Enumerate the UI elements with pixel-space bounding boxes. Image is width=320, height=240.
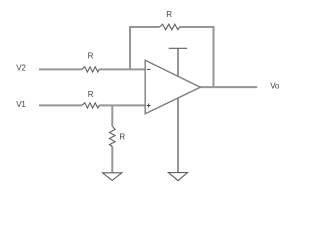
svg-text:V2: V2 [16,64,26,73]
svg-text:R: R [119,133,125,142]
svg-text:R: R [166,10,172,19]
svg-text:R: R [88,90,94,99]
svg-text:Vo: Vo [270,82,280,91]
svg-text:V1: V1 [16,100,26,109]
svg-text:R: R [88,52,94,61]
